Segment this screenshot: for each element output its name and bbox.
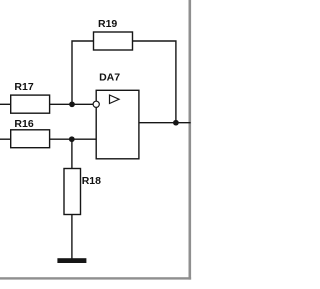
right gray frame border <box>189 0 192 280</box>
resistor R17 <box>11 95 50 113</box>
ground <box>57 258 86 263</box>
wire: left input to R17 <box>0 103 11 105</box>
node B: non-inverting input junction <box>69 136 75 142</box>
svg-text:R19: R19 <box>98 18 117 30</box>
op-amp amplifier triangle symbol <box>110 95 120 104</box>
wire: R19 left lead and drop to inverting node <box>72 41 94 104</box>
wire: R17 to inverting bubble <box>50 103 94 105</box>
bottom gray frame border <box>0 277 191 279</box>
wire: left input to R16 <box>0 138 11 140</box>
wire: node to R18 top <box>71 139 73 168</box>
svg-text:R16: R16 <box>14 118 33 130</box>
svg-text:DA7: DA7 <box>99 71 120 83</box>
resistor R16 <box>11 130 50 148</box>
wire: R19 right lead and drop to output node <box>133 41 176 123</box>
svg-text:R17: R17 <box>14 81 33 93</box>
resistor R18 <box>64 169 81 215</box>
wire: op-amp output to right edge <box>139 122 191 124</box>
svg-text:R18: R18 <box>82 175 101 187</box>
wire: R16 to non-inverting input <box>50 138 97 140</box>
wire: R18 bottom to ground <box>71 215 73 259</box>
node C: output junction <box>173 120 179 126</box>
resistor R19 <box>94 32 133 50</box>
op-amp inverting input bubble <box>93 101 99 107</box>
node A: inverting input junction <box>69 101 75 107</box>
op-amp U=DA7 body <box>96 90 139 159</box>
